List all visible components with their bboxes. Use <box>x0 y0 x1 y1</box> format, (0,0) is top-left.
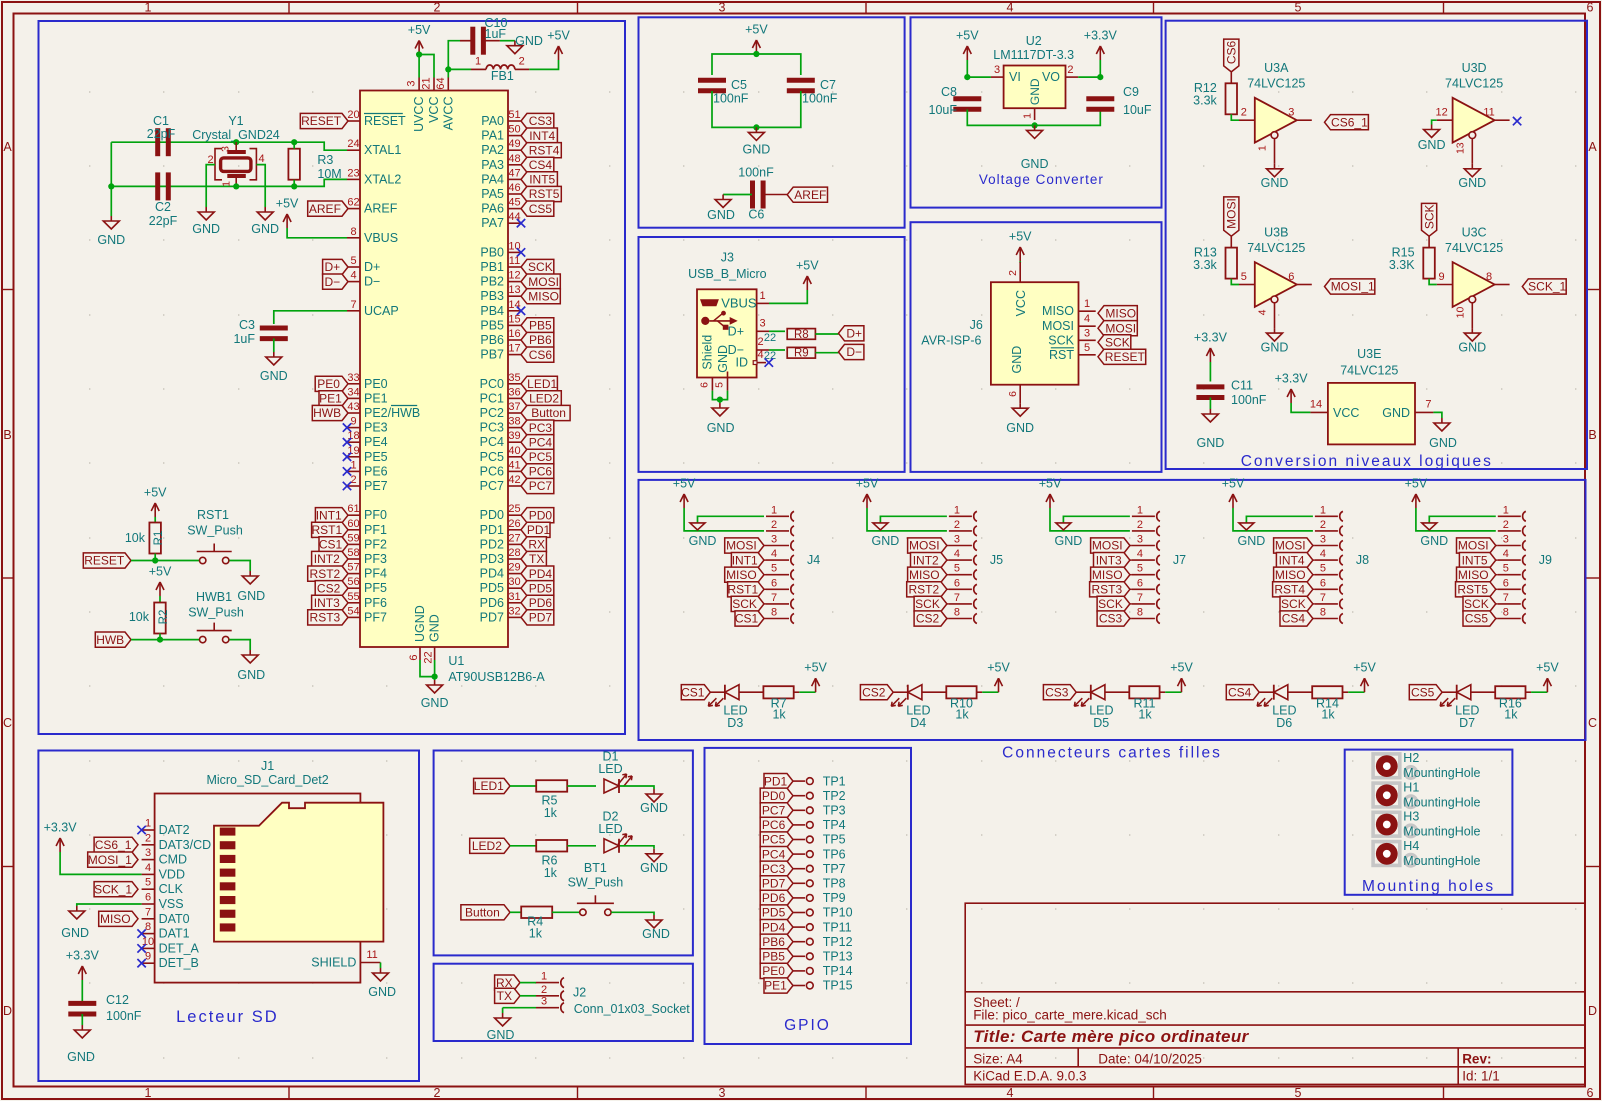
svg-text:5: 5 <box>714 382 726 388</box>
svg-text:+3.3V: +3.3V <box>1194 331 1228 345</box>
svg-text:2: 2 <box>434 1086 441 1100</box>
svg-text:CS3: CS3 <box>1045 685 1069 699</box>
svg-text:2: 2 <box>1320 519 1326 531</box>
svg-text:11: 11 <box>1483 107 1494 119</box>
svg-text:B: B <box>1588 428 1596 442</box>
svg-text:8: 8 <box>954 607 960 619</box>
svg-text:6: 6 <box>1587 1 1594 15</box>
svg-text:PE1: PE1 <box>364 391 388 405</box>
svg-text:1: 1 <box>541 971 547 983</box>
svg-text:LED: LED <box>598 762 622 776</box>
svg-text:ID: ID <box>736 356 749 370</box>
svg-text:4: 4 <box>258 153 264 165</box>
svg-text:Connecteurs cartes filles: Connecteurs cartes filles <box>1002 745 1222 762</box>
svg-text:+5V: +5V <box>144 486 167 500</box>
svg-text:HWB1: HWB1 <box>196 590 232 604</box>
svg-text:GND: GND <box>1261 341 1289 355</box>
svg-text:MountingHole: MountingHole <box>1403 795 1480 809</box>
svg-text:VBUS: VBUS <box>721 296 757 311</box>
svg-text:PC5: PC5 <box>762 833 786 847</box>
svg-text:Id: 1/1: Id: 1/1 <box>1462 1069 1500 1084</box>
svg-text:SCK: SCK <box>1105 336 1130 350</box>
svg-text:SHIELD: SHIELD <box>311 956 356 970</box>
svg-text:1k: 1k <box>1138 708 1152 722</box>
svg-text:8: 8 <box>1486 271 1492 283</box>
svg-text:11: 11 <box>509 255 520 267</box>
svg-text:PF7: PF7 <box>364 610 387 624</box>
svg-text:J9: J9 <box>1539 553 1552 567</box>
svg-text:CS3: CS3 <box>529 114 553 128</box>
svg-text:C: C <box>1588 716 1597 730</box>
svg-text:GND: GND <box>428 614 442 642</box>
svg-text:GND: GND <box>642 927 670 941</box>
svg-text:C9: C9 <box>1123 85 1139 99</box>
svg-text:PD5: PD5 <box>762 906 786 920</box>
svg-text:PD2: PD2 <box>480 537 504 551</box>
svg-text:SCK: SCK <box>1098 597 1123 611</box>
svg-text:CS5: CS5 <box>529 202 553 216</box>
svg-text:PD1: PD1 <box>764 774 788 788</box>
svg-text:39: 39 <box>508 430 520 442</box>
svg-text:PD7: PD7 <box>529 611 553 625</box>
svg-text:PA1: PA1 <box>481 129 504 143</box>
svg-text:LED2: LED2 <box>472 839 502 853</box>
svg-text:R8: R8 <box>794 329 809 341</box>
svg-text:1: 1 <box>1022 113 1034 119</box>
svg-text:PD4: PD4 <box>762 920 786 934</box>
svg-text:5: 5 <box>1084 342 1090 354</box>
svg-text:10M: 10M <box>317 167 341 181</box>
svg-text:3: 3 <box>1288 107 1294 119</box>
svg-text:PB0: PB0 <box>480 245 504 259</box>
svg-text:CS2: CS2 <box>317 581 341 595</box>
svg-text:PE4: PE4 <box>364 435 388 449</box>
svg-text:1: 1 <box>1257 145 1269 151</box>
svg-text:PC4: PC4 <box>480 435 504 449</box>
svg-text:VDD: VDD <box>159 867 185 881</box>
svg-text:C1: C1 <box>153 114 169 128</box>
svg-text:59: 59 <box>347 532 359 544</box>
svg-text:3: 3 <box>220 146 232 152</box>
svg-text:INT1: INT1 <box>316 508 342 522</box>
svg-text:J6: J6 <box>970 318 983 332</box>
svg-text:25: 25 <box>508 503 520 515</box>
svg-text:D4: D4 <box>910 716 926 730</box>
svg-text:4: 4 <box>1320 548 1326 560</box>
svg-text:1: 1 <box>145 818 151 830</box>
svg-text:U3D: U3D <box>1462 61 1487 75</box>
svg-text:6: 6 <box>408 654 420 660</box>
svg-text:+5V: +5V <box>1222 477 1245 491</box>
svg-text:KiCad E.D.A. 9.0.3: KiCad E.D.A. 9.0.3 <box>973 1069 1086 1084</box>
svg-text:RST4: RST4 <box>529 143 560 157</box>
svg-text:4: 4 <box>1007 1 1014 15</box>
svg-text:+5V: +5V <box>673 477 696 491</box>
svg-text:SCK: SCK <box>528 260 553 274</box>
svg-text:VSS: VSS <box>159 897 184 911</box>
svg-text:SCK: SCK <box>1422 204 1436 229</box>
svg-text:MOSI: MOSI <box>726 539 757 553</box>
svg-text:PC6: PC6 <box>480 464 504 478</box>
svg-text:VO: VO <box>1042 70 1060 84</box>
svg-text:C7: C7 <box>820 78 836 92</box>
svg-text:PC2: PC2 <box>480 406 504 420</box>
svg-text:J4: J4 <box>807 553 820 567</box>
svg-text:SCK_1: SCK_1 <box>94 882 132 896</box>
svg-text:CS1: CS1 <box>735 612 759 626</box>
svg-text:CS2: CS2 <box>916 612 940 626</box>
svg-text:GND: GND <box>1261 176 1289 190</box>
svg-text:1: 1 <box>221 181 233 187</box>
svg-text:PD4: PD4 <box>529 567 553 581</box>
svg-text:1: 1 <box>1503 504 1509 516</box>
svg-text:GND: GND <box>1458 341 1486 355</box>
svg-text:PE5: PE5 <box>364 450 388 464</box>
svg-text:GND: GND <box>237 589 265 603</box>
svg-text:PF1: PF1 <box>364 523 387 537</box>
svg-text:+3.3V: +3.3V <box>44 821 78 835</box>
svg-text:74LVC125: 74LVC125 <box>1247 77 1305 91</box>
svg-text:57: 57 <box>347 562 359 574</box>
svg-text:AVCC: AVCC <box>441 97 455 131</box>
svg-text:33: 33 <box>347 372 359 384</box>
svg-text:PA3: PA3 <box>481 158 504 172</box>
svg-text:D: D <box>1588 1004 1597 1018</box>
svg-text:UCAP: UCAP <box>364 304 399 318</box>
svg-text:7: 7 <box>954 592 960 604</box>
svg-text:6: 6 <box>954 577 960 589</box>
svg-text:MOSI: MOSI <box>1225 198 1239 229</box>
svg-text:INT4: INT4 <box>1279 553 1305 567</box>
svg-text:D6: D6 <box>1276 716 1292 730</box>
svg-text:4: 4 <box>1137 548 1143 560</box>
svg-text:H2: H2 <box>1403 751 1419 765</box>
svg-text:1k: 1k <box>1321 708 1335 722</box>
svg-text:TP2: TP2 <box>823 789 846 803</box>
svg-text:SW_Push: SW_Push <box>568 876 624 890</box>
svg-text:2: 2 <box>519 56 525 68</box>
svg-text:PB3: PB3 <box>480 289 504 303</box>
svg-text:PC1: PC1 <box>480 391 504 405</box>
svg-text:6: 6 <box>1320 577 1326 589</box>
svg-text:4: 4 <box>350 270 356 282</box>
svg-text:PF3: PF3 <box>364 552 387 566</box>
svg-text:61: 61 <box>347 503 359 515</box>
svg-text:XTAL1: XTAL1 <box>364 143 401 157</box>
svg-text:GND: GND <box>1458 176 1486 190</box>
svg-text:XTAL2: XTAL2 <box>364 172 401 186</box>
svg-text:1k: 1k <box>544 866 558 880</box>
svg-text:RST5: RST5 <box>529 187 560 201</box>
svg-text:CS6_1: CS6_1 <box>1331 115 1368 129</box>
svg-text:PD5: PD5 <box>480 581 504 595</box>
svg-text:RST3: RST3 <box>1091 583 1122 597</box>
svg-text:1: 1 <box>1137 504 1143 516</box>
svg-text:10uF: 10uF <box>1123 103 1152 117</box>
svg-text:1uF: 1uF <box>233 332 255 346</box>
svg-text:CS4: CS4 <box>1282 612 1306 626</box>
svg-text:7: 7 <box>771 592 777 604</box>
svg-text:+5V: +5V <box>796 259 819 273</box>
svg-text:100nF: 100nF <box>1231 393 1267 407</box>
svg-text:45: 45 <box>508 197 520 209</box>
svg-text:VI: VI <box>1009 70 1021 84</box>
svg-text:USB_B_Micro: USB_B_Micro <box>688 267 767 281</box>
svg-text:8: 8 <box>1137 607 1143 619</box>
svg-text:+5V: +5V <box>856 477 879 491</box>
svg-text:43: 43 <box>347 401 359 413</box>
svg-text:PB6: PB6 <box>762 935 785 949</box>
svg-text:RST2: RST2 <box>908 583 939 597</box>
svg-text:8: 8 <box>771 607 777 619</box>
svg-text:GND: GND <box>1382 406 1410 420</box>
svg-text:PD6: PD6 <box>529 596 553 610</box>
svg-text:35: 35 <box>508 372 520 384</box>
svg-text:INT1: INT1 <box>732 553 758 567</box>
svg-text:26: 26 <box>508 518 520 530</box>
svg-text:1k: 1k <box>529 927 543 941</box>
svg-text:Date: 04/10/2025: Date: 04/10/2025 <box>1098 1052 1202 1067</box>
svg-text:GND: GND <box>707 421 735 435</box>
svg-text:PC6: PC6 <box>762 818 786 832</box>
svg-text:+5V: +5V <box>1039 477 1062 491</box>
svg-text:H4: H4 <box>1403 839 1419 853</box>
svg-text:RESET: RESET <box>84 554 125 568</box>
svg-text:38: 38 <box>508 416 520 428</box>
svg-text:21: 21 <box>421 77 433 89</box>
svg-text:DET_A: DET_A <box>159 941 200 955</box>
svg-text:Size: A4: Size: A4 <box>973 1052 1023 1067</box>
svg-text:+5V: +5V <box>1009 230 1032 244</box>
svg-text:PF5: PF5 <box>364 581 387 595</box>
svg-text:H1: H1 <box>1403 780 1419 794</box>
svg-text:HWB: HWB <box>96 633 124 647</box>
svg-text:1: 1 <box>350 459 356 471</box>
svg-text:+5V: +5V <box>987 661 1010 675</box>
svg-text:3: 3 <box>719 1 726 15</box>
svg-text:FB1: FB1 <box>491 69 514 83</box>
svg-text:10uF: 10uF <box>929 103 958 117</box>
svg-text:PD6: PD6 <box>762 891 786 905</box>
svg-text:GND: GND <box>640 801 668 815</box>
svg-text:PF0: PF0 <box>364 508 387 522</box>
svg-text:PA5: PA5 <box>481 187 504 201</box>
svg-text:PC4: PC4 <box>529 435 553 449</box>
svg-text:Button: Button <box>531 406 566 420</box>
svg-text:CS5: CS5 <box>1411 685 1435 699</box>
svg-text:41: 41 <box>508 459 520 471</box>
svg-text:PE2/HWB: PE2/HWB <box>364 406 420 420</box>
svg-text:1: 1 <box>475 56 481 68</box>
svg-text:14: 14 <box>1310 399 1322 411</box>
svg-text:C: C <box>3 716 12 730</box>
svg-text:J2: J2 <box>573 986 586 1000</box>
svg-text:4: 4 <box>954 548 960 560</box>
svg-text:MISO: MISO <box>726 568 757 582</box>
svg-text:32: 32 <box>508 605 520 617</box>
svg-text:GND: GND <box>97 233 125 247</box>
svg-text:7: 7 <box>1425 399 1431 411</box>
svg-text:LED2: LED2 <box>529 392 559 406</box>
svg-text:J5: J5 <box>990 553 1003 567</box>
svg-text:+5V: +5V <box>804 661 827 675</box>
svg-text:PB1: PB1 <box>480 260 504 274</box>
svg-text:PA6: PA6 <box>481 202 504 216</box>
svg-text:36: 36 <box>508 386 520 398</box>
svg-text:3: 3 <box>406 80 418 86</box>
svg-text:46: 46 <box>508 182 520 194</box>
svg-text:PD1: PD1 <box>480 523 504 537</box>
svg-text:INT5: INT5 <box>1462 553 1488 567</box>
svg-text:LM1117DT-3.3: LM1117DT-3.3 <box>993 48 1074 62</box>
svg-text:TP5: TP5 <box>823 833 846 847</box>
svg-text:5: 5 <box>1503 563 1509 575</box>
svg-text:SCK: SCK <box>915 597 940 611</box>
svg-text:MISO: MISO <box>1042 304 1074 318</box>
svg-text:C8: C8 <box>941 85 957 99</box>
svg-text:CS4: CS4 <box>529 158 553 172</box>
svg-text:PD7: PD7 <box>762 877 786 891</box>
svg-text:TP3: TP3 <box>823 804 846 818</box>
svg-text:MISO: MISO <box>100 912 131 926</box>
svg-text:CS2: CS2 <box>862 685 886 699</box>
svg-text:PF6: PF6 <box>364 596 387 610</box>
svg-text:PD1: PD1 <box>527 523 551 537</box>
svg-text:62: 62 <box>347 197 359 209</box>
svg-text:PE3: PE3 <box>364 421 388 435</box>
svg-text:1k: 1k <box>1504 708 1518 722</box>
svg-text:3: 3 <box>1503 534 1509 546</box>
svg-text:2: 2 <box>954 519 960 531</box>
svg-text:3: 3 <box>145 847 151 859</box>
svg-text:100nF: 100nF <box>713 92 749 106</box>
svg-text:3: 3 <box>771 534 777 546</box>
svg-text:CS6_1: CS6_1 <box>95 838 132 852</box>
svg-text:RST4: RST4 <box>1274 583 1305 597</box>
svg-text:42: 42 <box>508 474 520 486</box>
svg-text:TP9: TP9 <box>823 891 846 905</box>
svg-text:TX: TX <box>529 552 544 566</box>
svg-text:31: 31 <box>508 591 520 603</box>
svg-text:MountingHole: MountingHole <box>1403 825 1480 839</box>
svg-text:74LVC125: 74LVC125 <box>1445 241 1503 255</box>
svg-text:+5V: +5V <box>1405 477 1428 491</box>
svg-text:A: A <box>3 140 12 154</box>
svg-text:22: 22 <box>764 332 776 344</box>
svg-text:100nF: 100nF <box>106 1009 142 1023</box>
svg-text:9: 9 <box>350 416 356 428</box>
svg-text:37: 37 <box>508 401 520 413</box>
svg-text:Y1: Y1 <box>228 114 243 128</box>
svg-text:2: 2 <box>771 519 777 531</box>
svg-text:TP15: TP15 <box>823 979 853 993</box>
svg-text:TX: TX <box>497 989 512 1003</box>
svg-text:GND: GND <box>1420 534 1448 548</box>
svg-text:MISO: MISO <box>1458 568 1489 582</box>
svg-text:VCC: VCC <box>427 97 441 123</box>
svg-text:GND: GND <box>1238 534 1266 548</box>
svg-text:VBUS: VBUS <box>364 231 398 245</box>
svg-text:GND: GND <box>707 208 735 222</box>
svg-text:BT1: BT1 <box>584 861 607 875</box>
svg-text:54: 54 <box>347 605 359 617</box>
svg-text:GND: GND <box>421 696 449 710</box>
svg-text:MOSI: MOSI <box>1458 539 1489 553</box>
svg-text:TP4: TP4 <box>823 818 846 832</box>
svg-text:23: 23 <box>347 167 359 179</box>
svg-text:File: pico_carte_mere.kicad_sc: File: pico_carte_mere.kicad_sch <box>973 1008 1167 1023</box>
svg-text:1: 1 <box>759 290 765 302</box>
svg-text:SCK: SCK <box>732 597 757 611</box>
svg-text:PC3: PC3 <box>762 862 786 876</box>
svg-text:40: 40 <box>508 445 520 457</box>
svg-text:AREF: AREF <box>364 202 398 216</box>
svg-text:+5V: +5V <box>1353 661 1376 675</box>
svg-text:Shield: Shield <box>701 335 715 370</box>
svg-text:64: 64 <box>435 77 447 89</box>
svg-text:MISO: MISO <box>1092 568 1123 582</box>
svg-text:+5V: +5V <box>408 23 431 37</box>
svg-text:U3B: U3B <box>1264 226 1288 240</box>
svg-text:48: 48 <box>508 153 520 165</box>
svg-text:1: 1 <box>1084 298 1090 310</box>
svg-text:PC7: PC7 <box>529 479 553 493</box>
svg-text:U3E: U3E <box>1357 347 1381 361</box>
svg-text:PD0: PD0 <box>529 508 553 522</box>
svg-text:16: 16 <box>508 328 520 340</box>
svg-text:GND: GND <box>251 222 279 236</box>
svg-text:DAT2: DAT2 <box>159 823 190 837</box>
svg-text:3: 3 <box>1137 534 1143 546</box>
svg-text:29: 29 <box>508 562 520 574</box>
svg-text:GND: GND <box>1197 436 1225 450</box>
svg-text:2: 2 <box>350 474 356 486</box>
svg-text:GND: GND <box>1429 436 1457 450</box>
svg-text:8: 8 <box>1503 607 1509 619</box>
svg-text:PD3: PD3 <box>480 552 504 566</box>
svg-text:PC5: PC5 <box>480 450 504 464</box>
svg-text:INT2: INT2 <box>314 552 340 566</box>
svg-text:+5V: +5V <box>149 565 172 579</box>
svg-text:GND: GND <box>689 534 717 548</box>
svg-text:Voltage Converter: Voltage Converter <box>979 172 1104 187</box>
svg-text:Mounting holes: Mounting holes <box>1362 878 1495 895</box>
svg-text:+5V: +5V <box>1536 661 1559 675</box>
svg-text:PD0: PD0 <box>480 508 504 522</box>
svg-text:SW_Push: SW_Push <box>187 524 243 538</box>
svg-text:1uF: 1uF <box>485 27 507 41</box>
svg-text:PB5: PB5 <box>480 318 504 332</box>
svg-text:6: 6 <box>1288 271 1294 283</box>
svg-text:12: 12 <box>1435 107 1447 119</box>
svg-text:DAT1: DAT1 <box>159 927 190 941</box>
svg-text:TP8: TP8 <box>823 877 846 891</box>
svg-text:2: 2 <box>757 336 763 348</box>
svg-text:C6: C6 <box>748 208 764 222</box>
svg-text:TP7: TP7 <box>823 862 846 876</box>
svg-text:D3: D3 <box>727 716 743 730</box>
svg-text:U3A: U3A <box>1264 61 1289 75</box>
svg-text:7: 7 <box>1137 592 1143 604</box>
svg-text:1k: 1k <box>544 806 558 820</box>
svg-text:Conn_01x03_Socket: Conn_01x03_Socket <box>574 1002 691 1016</box>
svg-text:MOSI_1: MOSI_1 <box>88 853 132 867</box>
svg-text:SCK: SCK <box>1281 597 1306 611</box>
svg-text:GND: GND <box>67 1050 95 1064</box>
svg-text:9: 9 <box>145 951 151 963</box>
svg-text:AREF: AREF <box>309 202 341 216</box>
svg-text:DET_B: DET_B <box>159 956 199 970</box>
